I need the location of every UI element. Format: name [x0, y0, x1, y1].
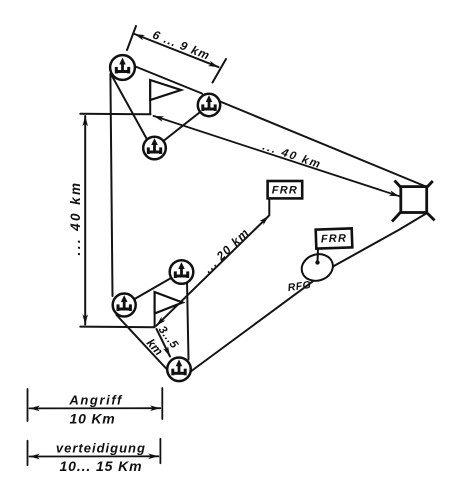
svg-text:... 40 km: ... 40 km	[261, 141, 323, 172]
FRR box 1	[268, 181, 303, 198]
wire C5-C6	[117, 315, 169, 371]
wire C1-C2	[128, 64, 202, 94]
wire C2 to target square	[214, 99, 427, 187]
target square corner tick bottom-right	[421, 207, 435, 220]
dimension Verteidigung arrow line	[30, 455, 159, 457]
dimension Angriff right tick	[161, 388, 163, 419]
FRR box 1 pole	[268, 198, 270, 215]
launcher circle C5	[113, 294, 136, 317]
flag F1 pennant	[150, 80, 181, 100]
target square corner tick top-left	[395, 181, 407, 194]
dimension 20km flag2 to FRR1	[156, 216, 269, 326]
launcher circle C3	[143, 137, 166, 160]
flag F2 pole	[154, 292, 156, 328]
dimension 6...9 km line	[135, 34, 219, 67]
svg-text:FRR: FRR	[321, 233, 348, 246]
flag F2 pennant	[155, 292, 183, 314]
wire extension bottom	[80, 326, 154, 329]
target square corner tick top-right	[422, 181, 433, 193]
RFG ellipse	[298, 250, 336, 284]
wire extension top	[80, 113, 150, 116]
wire C4-C6	[187, 282, 189, 360]
svg-text:10... 15 Km: 10... 15 Km	[59, 458, 142, 474]
wire C1-C5	[110, 74, 112, 296]
target square corner tick bottom-left	[392, 209, 404, 222]
dimension Angriff arrow line	[30, 407, 161, 409]
svg-text:FRR: FRR	[272, 184, 298, 196]
wire 40km arrow flag1 to square	[154, 116, 400, 196]
svg-text:Angriff: Angriff	[68, 393, 123, 408]
wire C6 to target square	[190, 213, 427, 372]
dimension 6...9 km right tick	[213, 59, 227, 83]
dimension Verteidigung right tick	[159, 439, 161, 464]
launcher circle C2	[198, 94, 220, 116]
launcher circle C4	[170, 260, 194, 284]
wire C1-C3	[112, 76, 149, 143]
dimension Angriff left tick	[27, 389, 29, 421]
svg-text:RFG: RFG	[287, 279, 312, 294]
target square	[401, 187, 427, 213]
FRR box 2	[316, 228, 353, 248]
svg-text:verteidigung: verteidigung	[56, 440, 146, 455]
wire C4-C5	[124, 272, 181, 305]
launcher circle C6	[167, 358, 191, 382]
launcher circle C1	[110, 55, 135, 80]
dimension 6...9 km left tick	[127, 26, 136, 50]
svg-text:6 ... 9 km: 6 ... 9 km	[151, 28, 213, 63]
svg-text:10 Km: 10 Km	[69, 410, 115, 426]
dimension 40km vertical	[84, 116, 86, 325]
dimension Verteidigung left tick	[27, 441, 29, 466]
flag F1 pole	[149, 80, 151, 115]
dimension 3...5 km line	[157, 329, 171, 357]
svg-text:... 40 km: ... 40 km	[68, 181, 83, 256]
FRR box 2 pole	[317, 248, 320, 263]
wire C2-C3	[155, 105, 210, 148]
svg-text:... 20 km: ... 20 km	[201, 225, 253, 275]
